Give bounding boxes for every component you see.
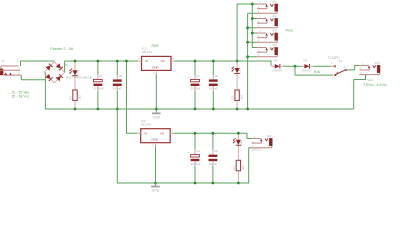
svg-text:SA5: SA5 — [267, 135, 272, 138]
junction dot feed — [125, 60, 128, 63]
svg-text:Puente 2 - 5A: Puente 2 - 5A — [50, 47, 74, 51]
svg-text:LED2: LED2 — [239, 139, 243, 146]
wire D4 to switch — [313, 65, 332, 67]
junction dot IC1 gnd — [155, 108, 158, 111]
svg-text:VI: VI — [144, 132, 147, 136]
voltage regulator IC2 — [141, 129, 171, 143]
resistor R2 — [232, 160, 245, 171]
bridge rectifier B1 — [44, 62, 65, 83]
label IC1 name/value — [142, 44, 159, 54]
wire row1 tip wire — [237, 3, 257, 5]
svg-text:9Vcc: 9Vcc — [286, 29, 294, 33]
junction dots LED3 chain — [236, 60, 239, 111]
wire C1 bottom lead — [97, 86, 99, 109]
svg-text:R2: R2 — [232, 166, 236, 170]
svg-text:+: + — [187, 75, 189, 79]
svg-text:R1: R1 — [69, 96, 73, 100]
capacitor C1 — [90, 74, 104, 91]
connector J1 (input jack plug) — [0, 59, 21, 75]
connector SA5 (jack plug) — [252, 135, 273, 148]
svg-text:C4: C4 — [196, 149, 200, 153]
wire bridge minus corner to ground rail — [44, 72, 46, 109]
wire sleeve stub row4 — [248, 56, 257, 58]
svg-text:+: + — [187, 150, 189, 154]
svg-text:GND: GND — [153, 116, 161, 120]
wire C2 bottom lead — [194, 86, 196, 109]
svg-text:GND: GND — [152, 65, 160, 69]
wire C8 top lead — [212, 133, 214, 154]
connector SA3 (jack plug) — [257, 29, 278, 42]
lead R3 bottom — [236, 101, 238, 110]
resistor R3 — [231, 90, 244, 101]
LED LED1 — [69, 69, 79, 77]
junction dots LED1 chain — [74, 60, 77, 111]
svg-text:SA2: SA2 — [272, 15, 277, 18]
svg-text:12VCC: 12VCC — [251, 147, 262, 151]
wire IC2 GND pin down — [155, 146, 157, 183]
svg-text:7,8Vcc - 8,4Vcc: 7,8Vcc - 8,4Vcc — [363, 83, 387, 87]
svg-text:VO: VO — [160, 132, 165, 136]
pins IC1 — [138, 61, 175, 74]
junction dots jack bank buses — [246, 3, 254, 111]
svg-text:S1: S1 — [339, 59, 343, 63]
lead LED1 top — [74, 61, 76, 70]
svg-text:J1: J1 — [1, 59, 4, 63]
ground symbol stub lower — [155, 183, 157, 186]
pin numbers IC1 — [138, 58, 174, 75]
wire switch to output jack tip — [347, 65, 360, 70]
wire lower ground rail — [117, 109, 251, 183]
svg-text:SA3: SA3 — [272, 29, 277, 32]
wire jack tip to AC rail — [21, 61, 55, 66]
svg-text:LED1: LED1 — [76, 69, 80, 76]
junction dots C1 — [97, 60, 100, 111]
wire C4 top lead — [194, 133, 196, 154]
ground symbol stub upper — [155, 109, 157, 113]
unregulated DC rail to IC1 — [65, 60, 138, 62]
lead R2 bottom — [237, 171, 239, 183]
wire C6 top lead — [212, 61, 214, 79]
wire jack sleeve down — [21, 75, 45, 80]
wire D3 to D4 — [283, 65, 302, 67]
wire 12V output rail — [174, 133, 252, 138]
wire output jack sleeve to ground — [354, 75, 366, 109]
svg-text:SAO: SAO — [367, 78, 374, 82]
wire bridge plus corner riser — [64, 61, 66, 72]
svg-text:+: + — [90, 75, 92, 79]
switch S1 — [328, 56, 347, 80]
lead LED2 to R2 — [237, 146, 239, 161]
capacitor C8 — [209, 149, 219, 166]
connector SA1 (jack plug) — [257, 0, 278, 13]
diode D3 — [272, 58, 283, 72]
lead LED3 to R3 — [236, 74, 238, 90]
connector SAO (jack plug) — [359, 62, 380, 75]
svg-text:D3: D3 — [274, 58, 278, 62]
resistor R1 — [69, 90, 82, 101]
svg-text:SAO: SAO — [375, 62, 380, 65]
junction dots LED2 chain — [237, 132, 240, 185]
label IC2 name/value — [141, 119, 152, 126]
wire C5 top lead — [116, 61, 118, 79]
svg-text:7812TV: 7812TV — [142, 50, 153, 54]
svg-text:GND: GND — [152, 189, 160, 193]
svg-text:2200uF: 2200uF — [191, 87, 201, 91]
wire sleeve bus to ground rail (crosses 9V rail) — [247, 13, 249, 109]
svg-text:C8: C8 — [214, 149, 218, 153]
wire C2 top lead — [194, 61, 196, 79]
wire tip stub row2 — [252, 18, 257, 20]
wire C8 bottom lead — [212, 161, 214, 183]
wire 9V output rail — [175, 61, 272, 66]
wire C5 bottom lead — [116, 86, 118, 109]
svg-text:SA1: SA1 — [272, 0, 277, 3]
junction dot IC2 gnd — [154, 182, 157, 185]
junction dots C5 — [116, 60, 119, 111]
voltage regulator IC1 — [142, 56, 172, 70]
wire C6 bottom lead — [212, 86, 214, 109]
svg-text:C5: C5 — [118, 74, 122, 78]
capacitor C2 — [187, 74, 201, 91]
svg-text:1N4007: 1N4007 — [272, 68, 283, 72]
svg-text:2200uF: 2200uF — [191, 162, 201, 166]
svg-text:VO: VO — [161, 59, 166, 63]
lead LED3 top — [236, 61, 238, 68]
svg-text:4700uF: 4700uF — [94, 87, 104, 91]
svg-text:2K2: 2K2 — [240, 94, 244, 99]
svg-text:SA4: SA4 — [272, 44, 277, 47]
connector SA2 (jack plug) — [257, 15, 278, 28]
svg-text:GND: GND — [151, 138, 159, 142]
wire 9V bus up to jack bank — [236, 4, 238, 61]
svg-text:2K2: 2K2 — [241, 165, 245, 170]
capacitor C4 — [187, 149, 201, 166]
svg-text:15 - 18 Vcc: 15 - 18 Vcc — [11, 95, 29, 99]
connector SA4 (jack plug) — [257, 44, 278, 57]
junction dots C2 — [194, 60, 197, 111]
wire tip distribution bus — [252, 4, 257, 48]
svg-text:D4: D4 — [303, 58, 307, 62]
lead R1 bottom — [74, 101, 76, 110]
pin numbers IC2 — [137, 130, 173, 147]
lead LED1 to R1 — [74, 76, 76, 90]
capacitor C6 — [209, 74, 219, 91]
LED LED3 — [232, 66, 242, 74]
capacitor C5 — [113, 74, 123, 91]
junction dots C6 — [212, 60, 215, 111]
svg-text:C6: C6 — [214, 74, 218, 78]
junction dot between diodes — [294, 65, 297, 68]
ground symbol — [151, 186, 160, 193]
junction dots C4 — [194, 132, 197, 185]
wire 8,4v branch — [295, 66, 333, 75]
svg-text:8,4v: 8,4v — [314, 70, 321, 74]
ground rail (bottom horizontal) — [45, 108, 353, 110]
wire feed to IC2 input (crosses ground rail) — [127, 61, 138, 133]
svg-text:C1: C1 — [99, 74, 103, 78]
wire IC1 GND pin down — [155, 74, 157, 109]
svg-text:1N4007: 1N4007 — [302, 68, 313, 72]
wire C4 bottom lead — [194, 161, 196, 183]
svg-text:C2: C2 — [196, 74, 200, 78]
pins IC2 — [137, 133, 174, 146]
junction dots C8 — [212, 132, 215, 185]
svg-text:2K2: 2K2 — [78, 94, 82, 99]
ground symbol — [152, 113, 161, 120]
svg-text:B1: B1 — [65, 63, 69, 67]
wire sleeve stub row2 — [248, 27, 257, 29]
wire C1 top lead — [97, 61, 99, 79]
svg-text:7809: 7809 — [151, 44, 159, 48]
wire sleeve stub row1 — [248, 12, 257, 14]
diode D4 — [302, 58, 313, 72]
wire sleeve stub row3 — [248, 41, 257, 43]
wire tip stub row3 — [252, 32, 257, 34]
svg-text:LED3: LED3 — [238, 67, 242, 74]
svg-text:7812TV: 7812TV — [141, 122, 152, 126]
LED LED2 — [233, 138, 243, 146]
lead LED2 top — [237, 133, 239, 140]
svg-text:R3: R3 — [231, 96, 235, 100]
svg-text:VI: VI — [145, 59, 148, 63]
